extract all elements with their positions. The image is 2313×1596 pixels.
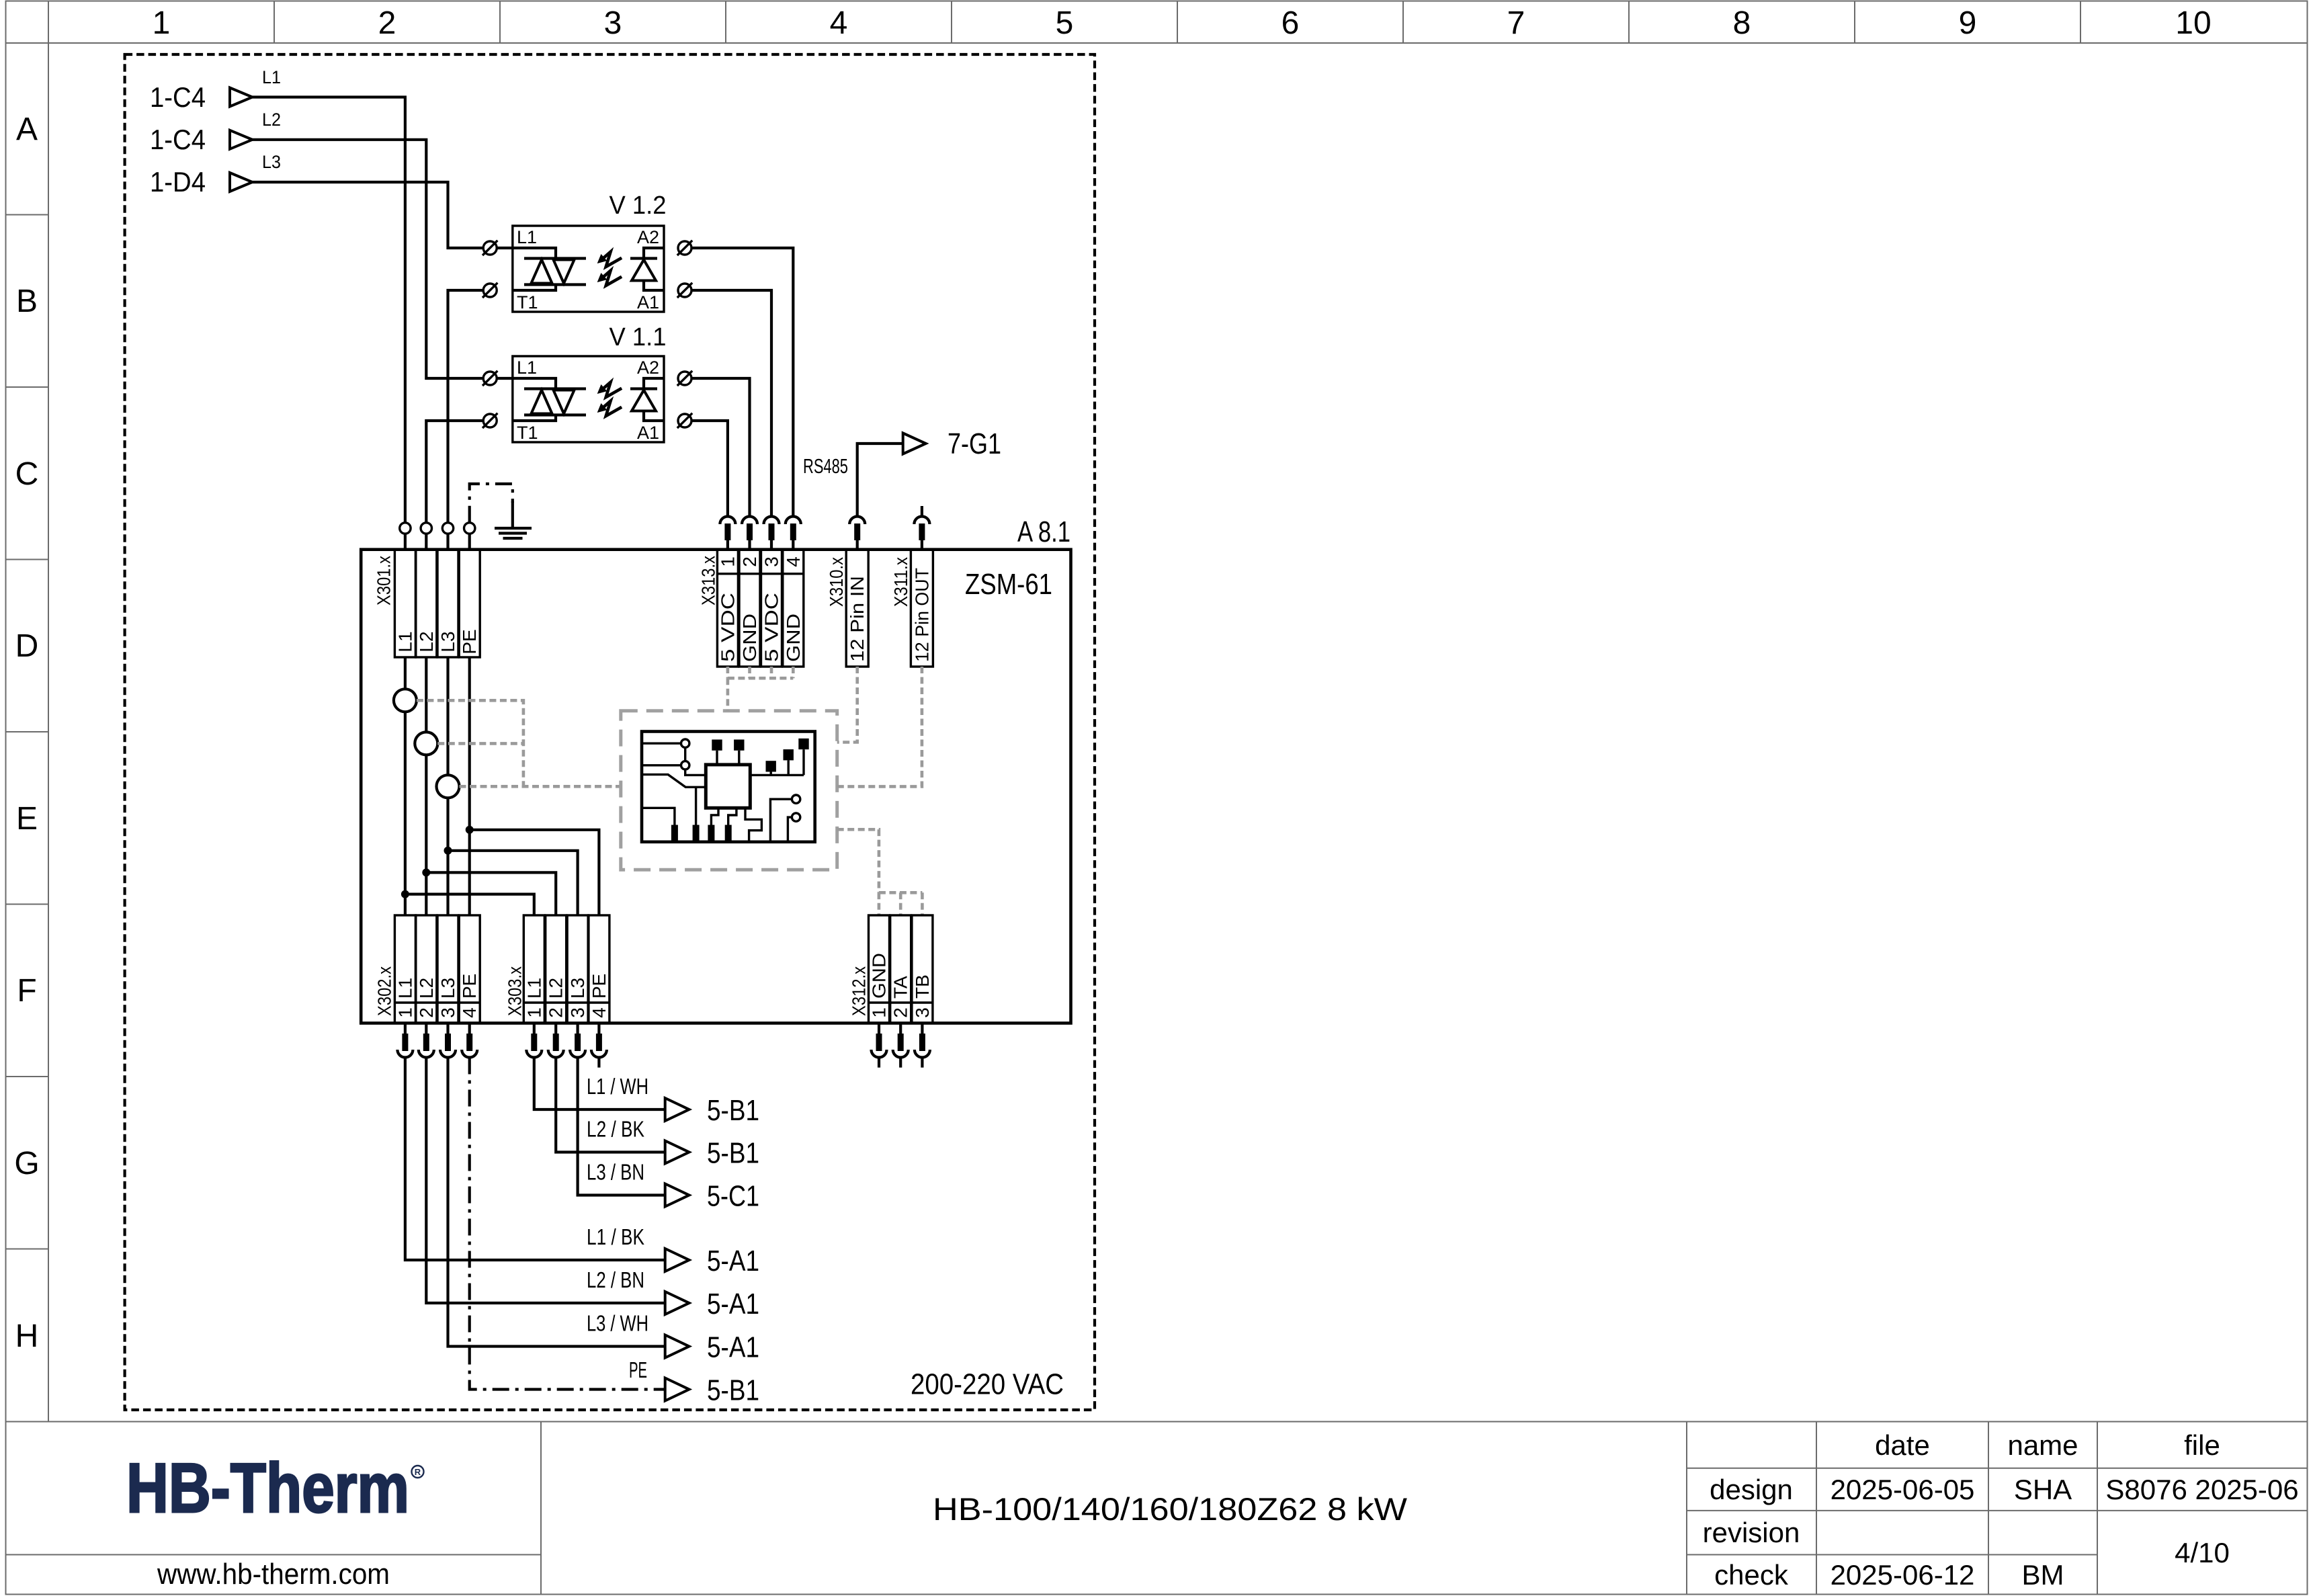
input reference 1-C4 (L2) <box>150 110 281 155</box>
svg-text:HB-Therm: HB-Therm <box>126 1450 409 1527</box>
svg-text:A2: A2 <box>637 358 659 378</box>
current transformer T3 <box>437 775 460 798</box>
wire V1.1 A2 to X313.2 <box>691 378 750 517</box>
svg-text:12 Pin OUT: 12 Pin OUT <box>911 568 932 662</box>
svg-text:L1: L1 <box>394 631 415 652</box>
plug pin X313.3 <box>764 517 780 550</box>
svg-text:L2: L2 <box>546 978 566 999</box>
plug pin X303.1 <box>526 1023 542 1058</box>
plug pin X302.4 <box>462 1023 477 1058</box>
svg-text:RS485: RS485 <box>803 454 848 478</box>
svg-text:1: 1 <box>717 556 738 567</box>
plug pin X312.3 <box>915 1023 930 1058</box>
plug pin X310 <box>849 517 865 550</box>
CT sense dashed net <box>417 700 621 786</box>
plug pin X313.1 <box>720 517 735 550</box>
svg-text:www.hb-therm.com: www.hb-therm.com <box>157 1558 390 1591</box>
connector X302.x <box>374 915 480 1023</box>
svg-text:5-A1: 5-A1 <box>707 1288 759 1320</box>
wire X303.4 stub <box>597 1058 600 1068</box>
PE dash-dot link to ground <box>470 484 513 523</box>
plug pin X303.2 <box>548 1023 564 1058</box>
svg-text:7-G1: 7-G1 <box>948 427 1001 460</box>
wire X303.2 to 5-B1 <box>556 1058 759 1170</box>
X311 dotted net to PCB <box>837 667 922 786</box>
wire V1.2 L1 stub <box>497 247 513 249</box>
svg-text:L3 / BN: L3 / BN <box>587 1160 644 1185</box>
svg-text:date: date <box>1875 1429 1930 1461</box>
svg-text:5-B1: 5-B1 <box>707 1137 759 1170</box>
svg-text:10: 10 <box>2175 5 2211 41</box>
svg-text:L2: L2 <box>416 978 437 999</box>
svg-text:5-A1: 5-A1 <box>707 1245 759 1277</box>
wire X302.1 to 5-A1 <box>405 1058 759 1278</box>
X313 dotted net to PCB <box>728 667 793 711</box>
svg-text:X311.x: X311.x <box>890 557 911 607</box>
svg-text:1-C4: 1-C4 <box>150 124 206 155</box>
input reference 1-D4 (L3) <box>150 152 281 198</box>
svg-text:C: C <box>15 456 39 492</box>
title block <box>6 1422 2308 1595</box>
svg-text:3: 3 <box>567 1007 588 1018</box>
svg-text:A1: A1 <box>637 423 659 443</box>
wire stubs circles to box <box>405 534 470 550</box>
svg-text:L3: L3 <box>437 631 458 652</box>
svg-text:D: D <box>15 628 39 664</box>
wire X312.3 stub <box>921 1058 923 1068</box>
svg-text:L1 / WH: L1 / WH <box>587 1074 648 1099</box>
wire X303.3 to 5-C1 <box>578 1058 759 1213</box>
wire X302.2 to 5-A1 <box>426 1058 759 1321</box>
svg-text:design: design <box>1710 1474 1793 1505</box>
wire L2 inside module <box>425 657 427 915</box>
svg-text:200-220 VAC: 200-220 VAC <box>911 1368 1064 1401</box>
svg-text:X313.x: X313.x <box>698 556 719 605</box>
plug pin X313.4 <box>786 517 801 550</box>
svg-text:L3: L3 <box>567 978 588 999</box>
svg-text:L2: L2 <box>416 631 437 652</box>
wire V1.1 T1 return <box>426 421 483 523</box>
connector X303.x <box>504 915 609 1023</box>
svg-text:GND: GND <box>783 614 804 662</box>
wire V1.2 A1 to X313.3 <box>691 290 771 517</box>
svg-text:5-C1: 5-C1 <box>707 1180 759 1213</box>
contact circle L1 <box>400 523 411 534</box>
wire X303.1 to 5-B1 <box>534 1058 759 1128</box>
junction PE branch <box>466 826 474 834</box>
svg-text:L2 / BN: L2 / BN <box>587 1267 644 1292</box>
svg-text:L1: L1 <box>262 67 281 87</box>
wire X312.2 stub <box>899 1058 902 1068</box>
svg-text:T1: T1 <box>517 423 538 443</box>
junction L3 branch <box>444 847 452 855</box>
svg-text:A2: A2 <box>637 227 659 247</box>
svg-text:A 8.1: A 8.1 <box>1017 515 1070 548</box>
plug pin X302.2 <box>419 1023 434 1058</box>
svg-text:PE: PE <box>459 974 480 999</box>
svg-text:1: 1 <box>869 1007 890 1018</box>
terminal screw V1.2 T1 <box>482 283 497 298</box>
svg-text:check: check <box>1714 1559 1789 1591</box>
svg-text:1-D4: 1-D4 <box>150 166 206 198</box>
grid row letters <box>14 112 39 1354</box>
title table texts <box>1703 1429 2299 1591</box>
plug pin X311 <box>914 517 929 550</box>
svg-text:H: H <box>15 1318 39 1354</box>
wire PE inside module <box>468 657 471 915</box>
svg-text:2025-06-05: 2025-06-05 <box>1831 1474 1975 1505</box>
input reference 1-C4 (L1) <box>150 67 281 113</box>
schematic dashed frame <box>125 54 1095 1410</box>
svg-text:GND: GND <box>739 614 760 662</box>
HB-Therm logo <box>126 1450 424 1527</box>
svg-text:L1: L1 <box>517 227 537 247</box>
svg-text:2: 2 <box>739 556 760 567</box>
svg-text:B: B <box>16 284 38 319</box>
terminal screw V1.2 A1 <box>677 283 692 298</box>
RS485 net to 7-G1 <box>803 427 1001 517</box>
svg-text:file: file <box>2184 1429 2220 1461</box>
svg-text:A: A <box>16 112 38 147</box>
wire L2 feed <box>253 140 484 378</box>
plug pin X302.3 <box>440 1023 456 1058</box>
svg-text:X303.x: X303.x <box>504 966 525 1016</box>
terminal screw V1.1 A1 <box>677 413 692 428</box>
plug pin X302.1 <box>397 1023 413 1058</box>
svg-text:G: G <box>14 1146 39 1181</box>
svg-text:8: 8 <box>1733 5 1751 41</box>
terminal screw V1.1 T1 <box>482 413 497 428</box>
svg-text:X302.x: X302.x <box>374 966 394 1016</box>
svg-text:SHA: SHA <box>2014 1474 2072 1505</box>
svg-text:1: 1 <box>394 1007 415 1018</box>
svg-text:2: 2 <box>546 1007 566 1018</box>
wire X302.3 to 5-A1 <box>448 1058 760 1364</box>
wire L1 feed <box>253 97 405 523</box>
svg-text:TB: TB <box>912 974 933 999</box>
svg-text:4: 4 <box>783 556 804 567</box>
svg-text:9: 9 <box>1959 5 1977 41</box>
svg-text:V 1.2: V 1.2 <box>609 192 667 220</box>
wire X302.4 PE to 5-B1 <box>470 1058 759 1407</box>
wire PE branch to X303.4 <box>470 830 599 915</box>
svg-text:2025-06-12: 2025-06-12 <box>1831 1559 1975 1591</box>
wire L3 feed <box>253 182 484 248</box>
svg-text:L1: L1 <box>394 978 415 999</box>
wire L2 branch to X303.2 <box>426 872 556 915</box>
contact circle L2 <box>421 523 431 534</box>
svg-text:A1: A1 <box>637 292 659 312</box>
svg-text:5 VDC: 5 VDC <box>717 593 738 662</box>
wire L1 branch to X303.1 <box>405 894 534 915</box>
svg-text:S8076 2025-06: S8076 2025-06 <box>2105 1474 2298 1505</box>
wire L1 inside module <box>404 657 407 915</box>
svg-text:PE: PE <box>459 629 480 654</box>
grid column numbers <box>153 5 2212 41</box>
contact circle L3 <box>442 523 453 534</box>
svg-text:L1 / BK: L1 / BK <box>587 1224 644 1249</box>
junction L2 branch <box>422 868 430 876</box>
wire L3 branch to X303.3 <box>448 851 578 915</box>
connector X312.x <box>849 915 933 1023</box>
svg-text:BM: BM <box>2022 1559 2064 1591</box>
svg-text:revision: revision <box>1703 1517 1800 1548</box>
connector X301.x <box>374 550 480 657</box>
junction L1 branch <box>401 890 409 898</box>
svg-text:L1: L1 <box>523 978 544 999</box>
svg-text:R: R <box>415 1467 421 1477</box>
X310 dotted net to PCB <box>837 667 857 743</box>
svg-text:L1: L1 <box>517 358 537 378</box>
plug pin X312.2 <box>893 1023 909 1058</box>
svg-text:X312.x: X312.x <box>849 966 870 1016</box>
svg-text:3: 3 <box>437 1007 458 1018</box>
svg-text:X310.x: X310.x <box>826 557 847 607</box>
svg-text:L3: L3 <box>262 152 281 172</box>
connector X310.x <box>826 550 868 667</box>
svg-text:PE: PE <box>629 1357 647 1382</box>
solid-state relay V1.1 <box>513 323 667 443</box>
svg-text:L2: L2 <box>262 110 281 130</box>
solid-state relay V1.2 <box>513 192 667 312</box>
connector X311.x <box>890 550 933 667</box>
svg-text:2: 2 <box>378 5 396 41</box>
plug pin X313.2 <box>742 517 757 550</box>
svg-text:3: 3 <box>912 1007 933 1018</box>
svg-text:F: F <box>17 973 36 1009</box>
svg-text:L2 / BK: L2 / BK <box>587 1117 644 1142</box>
connector X313.x <box>698 550 804 667</box>
svg-text:T1: T1 <box>517 292 538 312</box>
svg-text:X301.x: X301.x <box>374 556 394 605</box>
svg-text:1-C4: 1-C4 <box>150 81 206 113</box>
svg-text:5-A1: 5-A1 <box>707 1331 759 1364</box>
svg-text:4/10: 4/10 <box>2175 1537 2230 1568</box>
terminal screw V1.1 A2 <box>677 371 692 386</box>
svg-text:L3: L3 <box>437 978 458 999</box>
svg-text:3: 3 <box>604 5 622 41</box>
wire X311 stub <box>921 506 923 517</box>
plug pin X303.4 <box>591 1023 607 1058</box>
svg-text:V 1.1: V 1.1 <box>609 323 667 351</box>
svg-text:5-B1: 5-B1 <box>707 1094 759 1127</box>
wire V1.1 L1 stub <box>497 377 513 380</box>
terminal screw V1.1 L1 <box>482 371 497 386</box>
svg-text:5 VDC: 5 VDC <box>761 593 782 662</box>
wire X312.1 stub <box>878 1058 880 1068</box>
wire V1.1 A1 to X313.1 <box>691 421 728 517</box>
module A8.1 box <box>361 515 1070 1023</box>
svg-text:PE: PE <box>589 974 609 999</box>
svg-text:5-B1: 5-B1 <box>707 1374 759 1407</box>
ground symbol <box>495 501 532 538</box>
terminal screw V1.2 A2 <box>677 241 692 255</box>
plug pin X303.3 <box>570 1023 585 1058</box>
svg-text:GND: GND <box>869 953 890 999</box>
wire V1.2 A2 to X313.4 <box>691 248 793 517</box>
svg-text:6: 6 <box>1281 5 1300 41</box>
svg-text:4: 4 <box>589 1007 609 1018</box>
svg-text:1: 1 <box>523 1007 544 1018</box>
contact circle PE <box>464 523 475 534</box>
svg-text:name: name <box>2007 1429 2078 1461</box>
svg-text:3: 3 <box>761 556 782 567</box>
current transformer T2 <box>415 732 437 755</box>
svg-text:1: 1 <box>153 5 171 41</box>
svg-text:E: E <box>16 801 38 837</box>
plug pin X312.1 <box>872 1023 887 1058</box>
X312 dotted net from PCB <box>837 829 923 915</box>
svg-text:2: 2 <box>416 1007 437 1018</box>
svg-text:4: 4 <box>830 5 848 41</box>
svg-text:HB-100/140/160/180Z62 8 kW: HB-100/140/160/180Z62 8 kW <box>933 1491 1408 1527</box>
svg-text:4: 4 <box>459 1007 480 1018</box>
svg-text:12 Pin IN: 12 Pin IN <box>847 576 868 662</box>
current transformer T1 <box>394 689 417 712</box>
svg-text:7: 7 <box>1507 5 1525 41</box>
wire V1.2 T1 return <box>448 290 484 523</box>
svg-text:ZSM-61: ZSM-61 <box>965 568 1052 601</box>
svg-text:5: 5 <box>1056 5 1074 41</box>
terminal screw V1.2 L1 <box>482 241 497 255</box>
wire L3 inside module <box>446 657 449 915</box>
PCB dashed outline <box>621 711 837 870</box>
svg-text:L3 / WH: L3 / WH <box>587 1311 648 1336</box>
PCB board graphic <box>642 732 815 842</box>
svg-text:2: 2 <box>890 1007 911 1018</box>
svg-text:TA: TA <box>890 976 911 999</box>
